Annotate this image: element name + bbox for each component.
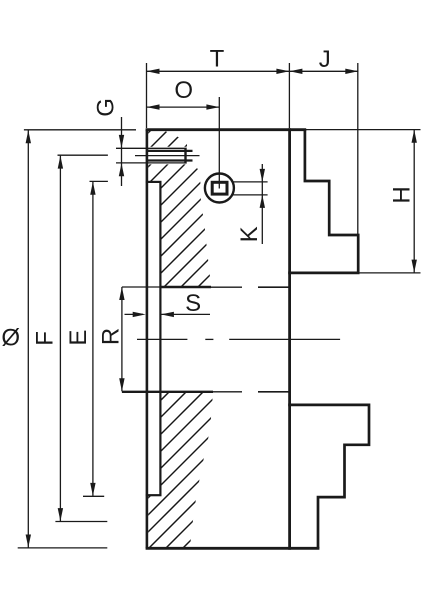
top jaw outline: [305, 130, 358, 273]
svg-text:E: E: [65, 330, 92, 346]
row1 bore line thick: [160, 286, 211, 289]
body bottom edge: [146, 547, 320, 550]
center line: [137, 338, 340, 340]
recess top tick: [146, 181, 162, 183]
ext line J right: [357, 63, 359, 234]
svg-text:J: J: [319, 46, 331, 73]
svg-text:R: R: [97, 328, 124, 345]
dim G: [119, 117, 124, 186]
svg-text:F: F: [32, 331, 59, 346]
row1 bore line dash: [258, 286, 290, 288]
chuck key circle: [205, 174, 234, 203]
dim S: [125, 312, 211, 317]
bottom jaw outline: [288, 405, 369, 548]
ext line O to socket: [218, 97, 220, 189]
svg-text:T: T: [210, 45, 225, 72]
svg-text:G: G: [93, 98, 120, 117]
svg-text:K: K: [236, 226, 263, 242]
row2 bore line thick: [122, 391, 213, 393]
body top edge: [146, 128, 307, 131]
ext line T left: [146, 63, 148, 128]
svg-text:Ø: Ø: [1, 325, 20, 352]
dim R: [119, 287, 124, 391]
dim J line: [289, 69, 358, 74]
threaded hole minor thick lines: [146, 150, 193, 152]
recess wall line: [159, 182, 161, 496]
threaded hole G: major thin lines: [116, 147, 185, 149]
dim diameter: [18, 130, 136, 548]
row2 bore line thin mid: [213, 391, 242, 393]
dim E: [83, 181, 108, 496]
body right edge: [288, 128, 291, 549]
svg-text:H: H: [388, 186, 415, 203]
threaded hole centerline: [135, 155, 200, 157]
top jaw bottom line: [288, 272, 359, 275]
row2 bore line dash: [258, 391, 290, 393]
ext line T/J shared: [288, 63, 290, 128]
dim T line: [147, 69, 290, 74]
svg-text:S: S: [185, 290, 201, 317]
dim H: [306, 130, 421, 273]
row1 bore line thin mid: [211, 286, 242, 288]
dim F: [55, 155, 108, 521]
body face line: [146, 130, 149, 549]
dim O line: [147, 104, 220, 109]
chuck key square: [212, 182, 227, 194]
dim K: [233, 164, 268, 244]
svg-text:O: O: [174, 77, 193, 104]
threaded hole end cap: [184, 148, 186, 164]
row1 bore line thin left: [122, 286, 160, 288]
recess bottom tick: [146, 494, 162, 496]
